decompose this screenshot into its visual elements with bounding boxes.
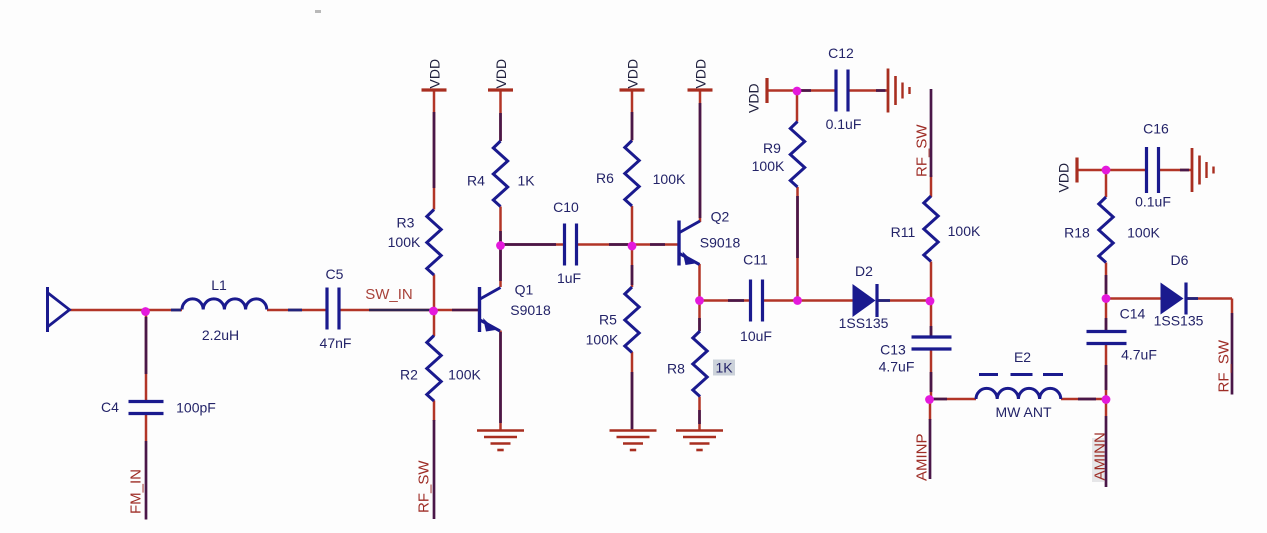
svg-text:R8: R8 (667, 361, 685, 377)
svg-text:R11: R11 (891, 224, 916, 240)
svg-text:100K: 100K (586, 332, 619, 348)
svg-text:C14: C14 (1120, 306, 1146, 322)
svg-text:VDD: VDD (493, 59, 509, 89)
svg-text:R18: R18 (1064, 225, 1090, 241)
svg-text:1SS135: 1SS135 (1154, 313, 1204, 329)
svg-text:Q2: Q2 (711, 209, 730, 225)
svg-text:S9018: S9018 (510, 302, 551, 318)
svg-text:1K: 1K (715, 360, 733, 376)
svg-text:2.2uH: 2.2uH (202, 327, 239, 343)
svg-text:R9: R9 (763, 140, 781, 156)
svg-text:C11: C11 (743, 252, 768, 268)
svg-text:100K: 100K (1127, 225, 1160, 241)
svg-text:1K: 1K (517, 173, 535, 189)
svg-text:R2: R2 (400, 367, 418, 383)
svg-text:100K: 100K (388, 234, 421, 250)
svg-text:10uF: 10uF (740, 328, 772, 344)
svg-text:C13: C13 (880, 342, 906, 358)
svg-text:4.7uF: 4.7uF (1121, 347, 1157, 363)
svg-text:C4: C4 (101, 399, 119, 415)
svg-text:100K: 100K (752, 158, 785, 174)
svg-text:S9018: S9018 (700, 235, 741, 251)
svg-text:R5: R5 (599, 312, 617, 328)
svg-text:0.1uF: 0.1uF (826, 116, 862, 132)
svg-text:C16: C16 (1143, 121, 1169, 137)
svg-text:R4: R4 (467, 173, 485, 189)
svg-text:D6: D6 (1171, 252, 1189, 268)
svg-text:100K: 100K (448, 367, 481, 383)
svg-text:L1: L1 (211, 277, 227, 293)
svg-text:AMINN: AMINN (1092, 432, 1109, 480)
svg-text:C5: C5 (326, 266, 344, 282)
svg-text:RF_SW: RF_SW (914, 124, 931, 177)
svg-text:100K: 100K (653, 171, 686, 187)
svg-text:4.7uF: 4.7uF (879, 359, 915, 375)
svg-text:VDD: VDD (1056, 163, 1072, 193)
svg-text:MW ANT: MW ANT (996, 404, 1052, 420)
svg-text:100pF: 100pF (176, 400, 216, 416)
svg-text:0.1uF: 0.1uF (1135, 194, 1171, 210)
svg-text:C12: C12 (828, 45, 854, 61)
svg-text:E2: E2 (1014, 349, 1031, 365)
svg-text:D2: D2 (855, 263, 873, 279)
svg-text:1uF: 1uF (557, 270, 581, 286)
svg-text:RF_SW: RF_SW (416, 460, 433, 513)
svg-text:FM_IN: FM_IN (128, 469, 145, 514)
svg-text:Q1: Q1 (515, 282, 534, 298)
svg-text:RF_SW: RF_SW (1216, 339, 1233, 392)
svg-text:R3: R3 (397, 215, 415, 231)
svg-text:VDD: VDD (625, 59, 641, 89)
svg-text:AMINP: AMINP (914, 433, 931, 481)
svg-text:1SS135: 1SS135 (839, 315, 889, 331)
svg-text:SW_IN: SW_IN (365, 286, 413, 303)
svg-text:100K: 100K (948, 223, 981, 239)
svg-text:47nF: 47nF (320, 335, 352, 351)
svg-text:R6: R6 (596, 170, 614, 186)
svg-text:VDD: VDD (746, 83, 762, 113)
svg-text:C10: C10 (553, 199, 579, 215)
svg-text:VDD: VDD (693, 59, 709, 89)
svg-text:VDD: VDD (427, 59, 443, 89)
